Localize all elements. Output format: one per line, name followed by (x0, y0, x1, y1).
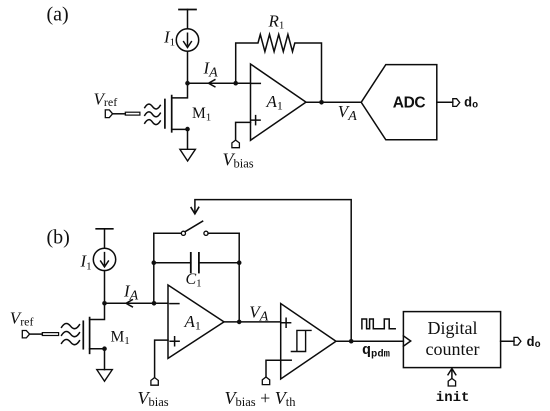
svg-text:Digital: Digital (428, 318, 478, 338)
svg-text:do: do (527, 336, 541, 351)
svg-text:I1: I1 (163, 28, 175, 49)
svg-text:M1: M1 (192, 105, 211, 124)
svg-text:A1: A1 (266, 92, 283, 113)
svg-text:M1: M1 (111, 329, 130, 348)
svg-text:(b): (b) (47, 226, 70, 248)
svg-text:Vbias + Vth: Vbias + Vth (225, 388, 297, 409)
svg-text:R1: R1 (268, 11, 285, 31)
svg-text:A1: A1 (184, 312, 201, 333)
svg-text:ADC: ADC (393, 95, 426, 112)
svg-text:(a): (a) (47, 3, 69, 25)
svg-text:Vbias: Vbias (223, 150, 254, 171)
svg-text:Vbias: Vbias (138, 388, 169, 409)
svg-text:I1: I1 (80, 252, 92, 273)
svg-text:Vref: Vref (10, 309, 34, 329)
svg-text:VA: VA (338, 102, 357, 124)
svg-text:counter: counter (426, 339, 480, 359)
svg-text:IA: IA (203, 59, 219, 81)
svg-text:do: do (464, 97, 478, 112)
svg-text:Vref: Vref (94, 89, 118, 109)
svg-text:init: init (436, 390, 470, 406)
svg-text:VA: VA (249, 302, 268, 324)
svg-text:C1: C1 (186, 271, 202, 289)
svg-text:qpdm: qpdm (362, 342, 390, 360)
svg-text:IA: IA (123, 282, 139, 304)
